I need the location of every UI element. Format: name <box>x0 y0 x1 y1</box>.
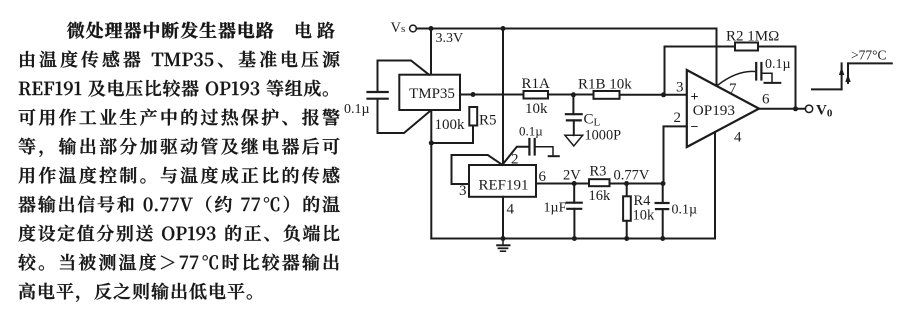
svg-text:CL: CL <box>584 112 601 129</box>
node Vo output terminal <box>805 105 812 112</box>
svg-text:16k: 16k <box>589 188 612 204</box>
annotation step arrowheads <box>839 67 844 75</box>
op-amp U1 OP193 triangle <box>687 70 759 147</box>
svg-text:3.3V: 3.3V <box>436 31 464 46</box>
wire TMP35 ground pin down <box>430 110 432 143</box>
svg-text:6: 6 <box>539 169 547 185</box>
wire R5 bottom to ground run <box>431 126 473 144</box>
wire R1B to OP193 pin 3 <box>620 94 687 96</box>
junction dot output feedback node <box>793 106 798 111</box>
svg-text:3: 3 <box>459 183 467 199</box>
svg-text:0.77V: 0.77V <box>614 168 650 184</box>
wire R2 to output drop <box>758 47 796 109</box>
svg-text:>77°C: >77°C <box>851 48 887 63</box>
regulator U2 REF191 body box <box>469 165 536 197</box>
wire TMP35 output to R1A <box>460 94 524 96</box>
wire pin7 bypass to ground stub <box>761 73 772 83</box>
resistor R2 body <box>735 43 758 51</box>
ground symbol main <box>502 239 504 246</box>
svg-text:100k: 100k <box>435 117 466 133</box>
ground stub bar at pin7 bypass <box>765 82 781 84</box>
junction dot CL node <box>571 92 576 97</box>
wire OP193 output pin 6 <box>759 108 805 110</box>
wire REF191 pin 6 output <box>536 183 589 185</box>
wire supply drop to REF191 pin 2 <box>502 29 504 165</box>
svg-text:1000P: 1000P <box>585 128 622 144</box>
capacitor CL plates <box>566 113 582 115</box>
svg-text:4: 4 <box>507 202 515 218</box>
wire CL to ground arrow <box>573 120 575 135</box>
svg-text:REF191: REF191 <box>478 178 528 194</box>
resistor R1B body <box>594 91 620 99</box>
wire feedback up from pin3 node <box>664 47 666 95</box>
capacitor 0.1u at REF191 plates <box>528 139 530 155</box>
wire pin7 bypass curve <box>718 71 755 85</box>
junction dot rail 0.1u <box>660 236 665 241</box>
svg-text:2: 2 <box>511 152 519 168</box>
annotation step waveform low line <box>812 88 842 90</box>
svg-text:R1A: R1A <box>522 76 551 92</box>
wire REF191 bypass to ground stub <box>535 147 553 157</box>
wire feedback left run to R2 <box>665 46 736 48</box>
svg-text:R3: R3 <box>590 164 607 180</box>
resistor R3 body <box>589 179 610 186</box>
junction dot R5 top <box>471 92 476 97</box>
capacitor 0.1u right top lead <box>662 184 664 204</box>
wire R1A to CL node <box>548 94 594 96</box>
resistor R1A body <box>524 91 549 99</box>
svg-text:0.1µ: 0.1µ <box>672 203 698 218</box>
junction dot feedback node at pin 3 wire <box>661 92 666 97</box>
wire bottom ground rail <box>431 238 715 240</box>
svg-text:R1B 10k: R1B 10k <box>578 77 632 93</box>
svg-text:4: 4 <box>734 130 742 146</box>
capacitor 0.1u right plates <box>656 202 669 204</box>
transducer TMP35 package outline top <box>378 61 430 92</box>
wire TMP35 ground down to bottom rail <box>430 143 432 239</box>
wire OP193 pin 4 down to rail <box>714 132 716 239</box>
wire top supply rail Vs to pin7 corner <box>416 28 716 30</box>
junction dot rail 1uF <box>572 236 577 241</box>
wire 0.1u right to rail <box>662 209 664 238</box>
junction dot 2V node <box>572 181 577 186</box>
transducer TMP35 package outline bottom <box>378 99 430 133</box>
svg-text:2V: 2V <box>563 168 581 184</box>
wire OP193 pin 2 stub <box>664 126 687 183</box>
wire supply drop to TMP35 <box>430 29 432 75</box>
resistor R4 top lead <box>626 184 628 197</box>
ground stub bar at REF191 bypass <box>549 155 559 157</box>
svg-text:R5: R5 <box>479 113 497 129</box>
svg-text:7: 7 <box>729 81 737 97</box>
junction dot REF191 supply tap <box>501 26 506 31</box>
resistor R4 body <box>623 196 631 221</box>
wire supply corner down to OP193 pin 7 <box>716 29 718 86</box>
capacitor 1uF top lead <box>573 184 575 203</box>
svg-text:2: 2 <box>674 110 682 126</box>
capacitor 1uF plates <box>567 202 582 204</box>
svg-text:0.1µ: 0.1µ <box>519 124 543 139</box>
junction dot TMP35 ground / R5 <box>429 141 434 146</box>
node Vs supply terminal <box>410 25 417 32</box>
junction dot rail R4 <box>624 236 629 241</box>
capacitor 0.1u at TMP35 plates <box>368 91 388 93</box>
svg-text:1µF: 1µF <box>544 201 567 216</box>
svg-text:−: − <box>691 120 699 135</box>
ground open-triangle under CL <box>565 135 583 146</box>
annotation step waveform rising edge <box>841 63 843 89</box>
svg-text:3: 3 <box>676 80 684 96</box>
wire R3 to pin2 node <box>610 183 664 185</box>
transducer TMP35 body box <box>399 75 460 110</box>
junction dot rail REF191 <box>501 236 506 241</box>
wire R4 to rail <box>626 221 628 239</box>
wire 1uF to rail <box>573 209 575 239</box>
junction dot 0.77V node <box>661 181 666 186</box>
svg-text:6: 6 <box>762 92 770 108</box>
resistor R5 body <box>469 107 477 126</box>
svg-text:0.1µ: 0.1µ <box>765 57 791 72</box>
wire REF191 pin 4 down <box>502 197 504 239</box>
wire REF191 pin 3 loop <box>452 155 503 184</box>
junction dot R4 top <box>624 181 629 186</box>
wire REF191 bypass cap diagonal to pin 2 <box>502 147 528 165</box>
svg-text:TMP35: TMP35 <box>409 86 455 102</box>
svg-text:OP193: OP193 <box>693 102 735 119</box>
junction dot TMP35 supply tap <box>429 26 434 31</box>
svg-text:V0: V0 <box>816 103 833 120</box>
paragraph: circuit description text <box>18 22 339 302</box>
svg-text:Vs: Vs <box>391 20 406 36</box>
svg-text:10k: 10k <box>525 101 548 117</box>
annotation step waveform high line <box>848 62 892 64</box>
capacitor 0.1u at pin 7 plates <box>755 63 757 80</box>
capacitor CL lead <box>572 95 574 114</box>
svg-text:0.1µ: 0.1µ <box>344 102 370 117</box>
svg-text:R2 1MΩ: R2 1MΩ <box>726 29 779 45</box>
svg-text:10k: 10k <box>633 208 656 224</box>
